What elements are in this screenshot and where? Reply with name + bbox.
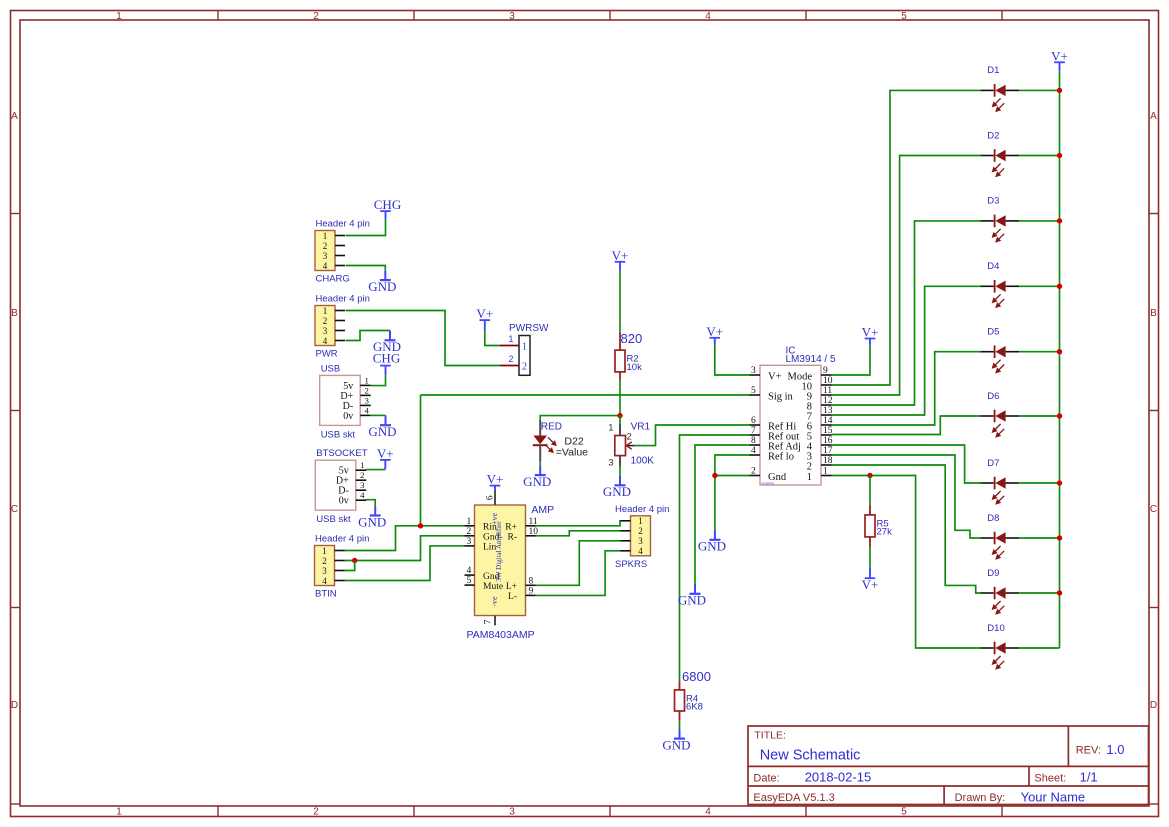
wire LM3914 output to D1 [832,90,981,385]
wire LM3914 pin17 to D8 [832,455,981,538]
wire LM3914 Gnd pin2 [715,476,750,530]
LED D7 [981,458,1020,504]
svg-text:V+: V+ [612,248,629,263]
svg-text:2: 2 [323,241,328,251]
connector USB (USB skt) [320,363,371,440]
svg-text:D2: D2 [987,130,999,141]
ground at LM3914 Gnd [698,530,726,554]
svg-text:1: 1 [509,334,514,344]
svg-text:R-: R- [508,533,518,543]
LED D9 [981,568,1020,614]
ground at LM3914 Ref Adj [678,585,706,608]
svg-text:GND: GND [358,514,386,529]
connector SPKRS (Header 4 pin) [615,504,669,570]
svg-text:=Value: =Value [556,447,588,459]
svg-text:4: 4 [322,576,327,586]
wire LM3914 Ref out to R4 [680,435,750,681]
svg-text:D5: D5 [987,327,999,338]
connector CHARG (Header 4 pin) [315,219,370,285]
LED D4 [981,261,1020,307]
svg-text:27k: 27k [877,527,893,538]
wire R5 bottom to V+ [869,547,871,567]
svg-text:EasyEDA V5.1.3: EasyEDA V5.1.3 [753,792,834,804]
svg-text:V+: V+ [706,324,723,339]
wire USB pin4 to GND [371,414,386,416]
ground at BTSOCKET pin4 [358,506,386,529]
wire PWR pin4 to GND [346,331,391,341]
svg-text:Your Name: Your Name [1021,789,1086,804]
svg-text:5: 5 [901,807,907,818]
svg-text:4: 4 [360,490,365,500]
wire LM3914 pin16 to D7 [832,445,981,483]
wire D2 to V+ rail [1019,155,1059,157]
wire D3 to V+ rail [1019,220,1059,222]
wire PAM L+ to SPKRS pin3 [536,541,621,586]
wire V+ to R2 [619,271,621,333]
power V+ at PAM8403 pin6 [487,472,504,491]
svg-text:2: 2 [638,526,643,536]
svg-text:2: 2 [323,316,328,326]
LED D5 [981,327,1020,373]
svg-text:820: 820 [621,331,643,346]
svg-text:6800: 6800 [682,669,711,684]
svg-text:5: 5 [751,386,756,396]
svg-text:GND: GND [662,737,690,752]
svg-text:1: 1 [323,231,328,241]
wire LM3914 Mode pin9 to V+ [832,345,871,375]
svg-text:L-: L- [508,592,517,602]
svg-text:2: 2 [509,354,514,364]
wire LM3914 output to D4 [832,286,981,415]
svg-text:1: 1 [323,306,328,316]
wire CHARG pin1 to CHG flag [346,219,386,235]
svg-text:D1: D1 [987,65,999,76]
svg-text:4: 4 [467,566,472,576]
net flag CHG to USB pin1 (inverted) [373,351,400,376]
svg-text:PWR: PWR [316,349,338,360]
wire D6 to V+ rail [1019,415,1059,417]
svg-text:V+: V+ [1051,48,1068,63]
wire BTIN pin2 to PAM8403 Gnd [345,536,465,561]
wire D22 cathode to GND [539,461,541,466]
svg-text:9: 9 [529,586,534,596]
svg-text:D7: D7 [987,458,999,469]
svg-text:2: 2 [807,462,812,473]
power V+ at LED rail [1051,48,1068,71]
junction D5 anode to rail [1057,349,1062,354]
svg-text:1: 1 [360,460,364,470]
svg-text:3: 3 [323,251,328,261]
wire V+ rail [1059,72,1061,648]
wire V+ to PWRSW pin1 [485,331,500,346]
wire D4 to V+ rail [1019,285,1059,287]
svg-text:0v: 0v [343,411,353,422]
LED D3 [981,196,1020,242]
svg-text:2018-02-15: 2018-02-15 [805,769,872,784]
svg-text:B: B [1150,308,1157,319]
wire LM3914 output to D2 [832,156,981,396]
connector PWR (Header 4 pin) [315,294,370,360]
svg-text:3: 3 [323,326,328,336]
svg-text:D4: D4 [987,261,999,272]
wire D9 to V+ rail [1019,592,1059,594]
wire D7 to V+ rail [1019,482,1059,484]
svg-text:CHG: CHG [373,351,400,366]
power V+ above R2 [612,248,629,272]
svg-text:2: 2 [360,470,364,480]
LED D22 [533,420,588,461]
svg-text:V+: V+ [862,325,879,340]
svg-text:BTIN: BTIN [315,589,337,600]
wire R4 to GND [679,721,681,730]
svg-text:2: 2 [751,466,756,476]
junction D7 anode to rail [1057,480,1062,485]
title block [748,726,1149,805]
svg-text:3: 3 [322,566,327,576]
wire D1 to V+ rail [1019,89,1059,91]
svg-text:2: 2 [522,362,527,373]
power V+ at LM3914 pin3 [706,324,723,345]
IC LM3914 / 5 [750,346,836,486]
svg-text:PWRSW: PWRSW [509,323,549,334]
svg-text:2: 2 [364,385,368,395]
junction R2/VR1/D22 [617,413,622,418]
svg-text:V+: V+ [476,306,493,321]
wire CHG flag to USB pin1 [371,375,386,385]
wire PWR pin1 to PWRSW pin2 [346,311,501,366]
svg-text:0v: 0v [339,496,349,507]
svg-text:1: 1 [638,516,643,526]
svg-text:GND: GND [368,424,396,439]
LED D2 [981,130,1020,176]
svg-text:7: 7 [751,426,756,436]
svg-text:2: 2 [467,527,472,537]
svg-text:V+: V+ [377,446,394,461]
svg-text:V+: V+ [862,577,879,592]
svg-text:SPKRS: SPKRS [615,559,647,570]
svg-text:3: 3 [509,11,515,22]
svg-text:C: C [11,504,18,515]
svg-text:RED: RED [541,422,562,433]
svg-text:V+: V+ [768,371,782,382]
resistor R4 6K8 [675,681,703,721]
IC U2 PAM8403AMP [465,491,555,641]
potentiometer VR1 100K [608,416,654,469]
svg-text:Header 4 pin: Header 4 pin [615,504,669,515]
wire Sig in net [421,394,750,396]
wire LM3914 pin18 to D9 [832,465,981,593]
svg-text:11: 11 [823,386,832,396]
svg-text:BTSOCKET: BTSOCKET [316,448,367,459]
svg-text:D8: D8 [987,513,999,524]
junction D1 anode to rail [1057,88,1062,93]
svg-text:VR1: VR1 [631,422,651,433]
svg-text:USB: USB [321,363,341,374]
wire LM3914 output to D6 [832,416,981,435]
wire BTIN pin1 to PAM8403 Rin [345,526,465,551]
svg-text:4: 4 [364,405,369,415]
svg-text:B: B [11,308,18,319]
svg-text:GND: GND [698,539,726,554]
ground at PWR pin4 [373,331,401,355]
svg-text:Sheet:: Sheet: [1034,772,1066,784]
svg-text:1: 1 [364,375,368,385]
wire D8 to V+ rail [1019,537,1059,539]
svg-text:LM3914 / 5: LM3914 / 5 [786,354,836,365]
switch PWRSW [500,323,549,375]
svg-text:D3: D3 [987,196,999,207]
ground at R4 [662,730,690,753]
junction Ref lo / Gnd [712,473,717,478]
svg-text:3W Digital Amplifier: 3W Digital Amplifier [495,521,503,582]
svg-text:D: D [1150,700,1157,711]
svg-text:1: 1 [807,472,812,483]
svg-text:D9: D9 [987,568,999,579]
svg-text:2: 2 [322,556,327,566]
wire junction to D22 [540,416,620,420]
LED D8 [981,513,1020,559]
svg-text:3: 3 [608,458,613,469]
wire R5 top [869,476,871,505]
ground at D22 [523,467,551,489]
svg-text:D: D [11,700,18,711]
svg-text:17: 17 [823,446,833,456]
svg-text:1.0: 1.0 [1106,742,1124,757]
power V+ at LM3914 pin9 Mode [862,325,879,346]
svg-text:Header 4 pin: Header 4 pin [316,294,370,305]
svg-text:USB skt: USB skt [321,429,356,440]
svg-text:18: 18 [823,456,833,466]
wire BTIN pin3 tie [345,561,355,571]
svg-text:REV:: REV: [1076,745,1101,757]
svg-text:3: 3 [364,395,369,405]
svg-text:-ve: -ve [490,596,499,607]
svg-text:1: 1 [608,423,613,434]
wire BTSOCKET pin1 to V+ [366,469,386,471]
wire BTSOCKET pin4 to GND [366,500,375,506]
svg-text:R+: R+ [505,523,517,533]
wire VR1 wiper to LM3914 Ref Hi [635,425,750,446]
wire BTIN pin4 to PAM8403 Lin [345,546,465,581]
wire VR1 pin3 to GND [619,466,621,475]
svg-text:4: 4 [323,336,328,346]
svg-text:USB skt: USB skt [316,514,351,525]
junction D2 anode to rail [1057,153,1062,158]
svg-text:3: 3 [638,536,643,546]
wire R2 to junction [619,380,621,416]
wire LM3914 Ref lo to Gnd net [715,455,750,476]
power V+ at PWRSW pin1 [476,306,493,331]
wire V+ to LM3914 pin3 [715,345,750,375]
svg-text:10k: 10k [627,362,643,373]
svg-text:C: C [1150,504,1157,515]
svg-text:CHG: CHG [374,197,401,212]
svg-text:InstaPart: InstaPart [762,481,775,485]
svg-text:4: 4 [751,446,756,456]
svg-text:Sig in: Sig in [768,391,794,402]
svg-text:1: 1 [467,517,472,527]
svg-text:1: 1 [522,342,527,353]
svg-text:6: 6 [485,495,495,500]
svg-text:3: 3 [509,807,515,818]
wire net to LM3914 Sig in vertical [420,395,422,526]
svg-text:15: 15 [823,426,833,436]
svg-text:GND: GND [523,474,551,489]
svg-text:TITLE:: TITLE: [754,730,786,742]
svg-text:Mute: Mute [483,582,503,592]
junction D9 anode to rail [1057,590,1062,595]
svg-text:Header 4 pin: Header 4 pin [316,219,370,230]
svg-text:100K: 100K [631,456,655,467]
svg-text:L+: L+ [506,582,517,592]
wire D5 to V+ rail [1019,351,1059,353]
power V+ below R5 (inverted) [862,567,879,592]
svg-text:Drawn By:: Drawn By: [955,792,1006,804]
wire D10 to V+ rail [1019,647,1059,649]
svg-text:CHARG: CHARG [316,274,350,285]
svg-text:1: 1 [116,11,122,22]
svg-text:AMP: AMP [531,504,554,516]
svg-text:4: 4 [705,11,711,22]
svg-text:2: 2 [627,431,632,442]
svg-text:D6: D6 [987,391,999,402]
LED D6 [981,391,1020,437]
svg-text:1: 1 [116,807,122,818]
svg-text:6: 6 [751,416,756,426]
svg-text:GND: GND [368,279,396,294]
wire PAM L- to SPKRS pin4 [536,551,621,596]
LED D1 [981,65,1020,111]
resistor R5 27k [865,505,892,547]
svg-text:A: A [1150,111,1157,122]
svg-text:D10: D10 [987,623,1004,634]
net flag CHG at CHARG pin1 [374,197,401,219]
svg-text:5: 5 [467,576,472,586]
svg-text:4: 4 [705,807,711,818]
connector BTIN (Header 4 pin) [315,534,370,600]
ground at VR1 pin3 [603,476,631,500]
svg-text:8: 8 [529,576,534,586]
svg-text:10: 10 [823,376,833,386]
svg-text:3: 3 [467,537,472,547]
junction BTIN pin1 net [418,523,423,528]
svg-text:3: 3 [751,366,756,376]
junction pin1/R5 [867,473,872,478]
svg-text:Ref lo: Ref lo [768,451,794,462]
svg-text:8: 8 [751,436,756,446]
wire LM3914 Ref Adj to GND [695,445,750,585]
svg-text:12: 12 [823,396,833,406]
svg-text:GND: GND [603,484,631,499]
wire LM3914 output to D3 [832,221,981,405]
junction D3 anode to rail [1057,218,1062,223]
svg-text:6K8: 6K8 [686,702,703,713]
junction D6 anode to rail [1057,413,1062,418]
svg-text:14: 14 [823,416,833,426]
svg-text:3: 3 [360,480,365,490]
svg-text:V+: V+ [487,472,504,487]
svg-text:7: 7 [483,619,493,624]
svg-text:1: 1 [322,546,327,556]
junction D8 anode to rail [1057,535,1062,540]
svg-text:5: 5 [901,11,907,22]
svg-text:Date:: Date: [753,772,779,784]
svg-text:A: A [11,111,18,122]
ground at CHARG pin4 [368,271,396,294]
connector BTSOCKET (USB skt) [315,448,367,525]
svg-text:1: 1 [823,466,828,476]
wire PAM R- to SPKRS pin2 [536,531,621,536]
LED D10 [981,623,1020,669]
resistor R2 10k [615,333,642,380]
svg-text:16: 16 [823,436,833,446]
svg-text:New Schematic: New Schematic [760,748,861,764]
svg-text:GND: GND [678,593,706,608]
wire LM3914 output to D5 [832,352,981,425]
wire PAM R+ to SPKRS pin1 [536,521,621,526]
power V+ at BTSOCKET pin1 [377,446,394,469]
svg-text:Header 4 pin: Header 4 pin [315,534,369,545]
junction BTIN pin2/pin3 [352,558,357,563]
ground at USB pin4 [368,415,396,439]
svg-text:2: 2 [313,807,319,818]
junction D4 anode to rail [1057,284,1062,289]
svg-text:13: 13 [823,406,833,416]
svg-text:2: 2 [313,11,319,22]
svg-text:4: 4 [323,261,328,271]
svg-text:PAM8403AMP: PAM8403AMP [467,629,535,641]
svg-text:9: 9 [823,366,828,376]
svg-text:1/1: 1/1 [1080,769,1098,784]
wire CHARG pin4 to GND [346,266,386,271]
svg-text:4: 4 [638,546,643,556]
wire LM3914 pin1 to D10 and R5 [832,476,981,649]
